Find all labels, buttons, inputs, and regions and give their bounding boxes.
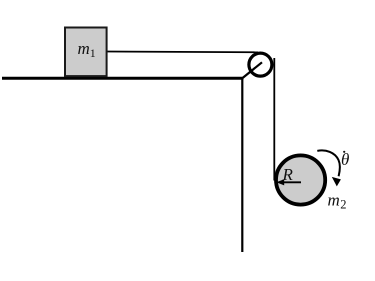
table surface — [2, 77, 243, 80]
radius arrow R (pointing left from disk center) — [276, 179, 301, 185]
pulley support strut (to pulley axle) — [242, 62, 262, 78]
label theta-dot — [341, 150, 349, 169]
svg-text:R: R — [282, 165, 294, 184]
pulley at table corner — [249, 53, 272, 76]
curved arrow (rotation direction) — [317, 150, 341, 186]
svg-text:θ: θ — [341, 150, 349, 169]
disk m2 — [276, 155, 325, 204]
rope hanging from pulley to disk m2 — [273, 58, 275, 181]
svg-text:m2: m2 — [328, 191, 347, 212]
rope from block m1 to pulley — [106, 51, 258, 54]
block m1 — [65, 28, 107, 77]
table edge (vertical) — [241, 77, 243, 252]
